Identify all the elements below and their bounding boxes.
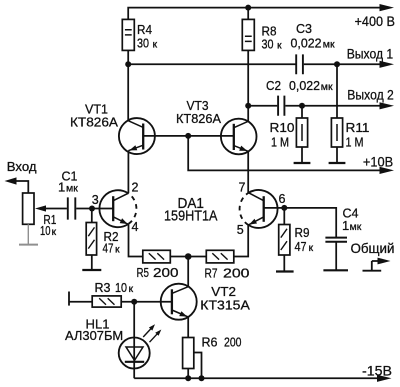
wire R11 branch from output1 [336, 64, 338, 118]
wire R11 bottom stem [336, 147, 338, 163]
transistor VT2 circle [161, 284, 197, 320]
wire R3 to VT2 base [121, 301, 172, 303]
HL1 light arrow 2 head [155, 330, 161, 336]
R4 power marks [125, 30, 132, 35]
DA1.1 emitter arrow [120, 218, 128, 224]
resistor R2 [86, 223, 96, 256]
wire output2 right segment [285, 105, 380, 107]
node junction output2/R10 [299, 103, 305, 109]
capacitor C2 [278, 96, 284, 116]
VT2 collector diagonal [172, 287, 188, 294]
HL1 light arrow 1 [143, 328, 152, 337]
wire pin6 node to C4 [284, 208, 336, 237]
svg-text:1 М: 1 М [346, 134, 364, 149]
R3 power marks [99, 298, 114, 304]
HL1 light arrow 2 [150, 333, 159, 342]
wire R8 top stem [247, 8, 249, 20]
ground bar under R11 [329, 162, 346, 164]
VT3 collector diagonal [234, 121, 248, 127]
resistor R7 [206, 250, 234, 263]
node junction R6 tap [199, 375, 205, 381]
svg-text:5: 5 [237, 223, 244, 237]
R5 power marks [149, 253, 164, 259]
wire R9 bottom stem [283, 255, 285, 271]
svg-text:С3: С3 [296, 21, 312, 36]
wire R1 bottom grey [27, 224, 29, 244]
wire output1 right segment [304, 63, 381, 65]
terminal arrow +400V [380, 4, 395, 11]
svg-text:0,022: 0,022 [289, 78, 320, 93]
node junction R8/VT3/C2 [245, 103, 251, 109]
DA1.1 base bar [112, 196, 114, 221]
VT3 base bar [233, 124, 235, 150]
svg-text:10: 10 [115, 280, 127, 295]
wire R4 bottom stem [127, 50, 129, 64]
svg-text:R7: R7 [205, 265, 218, 280]
VT3 base lead to bases node [188, 135, 234, 137]
capacitor C1 [68, 197, 76, 219]
wire R8 bottom to VT3 collector node [247, 50, 249, 105]
VT3 collector stem [247, 106, 249, 122]
wire C4 bottom stem [335, 243, 337, 270]
svg-text:к: к [52, 226, 57, 238]
wire DA1.1 emitter to R5 [129, 224, 143, 256]
LED HL1 circle [119, 338, 150, 369]
svg-text:Выход 2: Выход 2 [347, 88, 394, 103]
terminal arrow +10V [380, 167, 395, 174]
node junction VT1/VT3 bases [185, 133, 191, 139]
potentiometer R1 [23, 193, 34, 224]
node junction C1/R2/pin3 [89, 206, 95, 212]
svg-text:к: к [115, 243, 120, 255]
VT1 emitter arrow [129, 145, 137, 150]
wire input arrow lead [16, 181, 29, 193]
svg-text:47: 47 [103, 240, 114, 255]
common terminal symbol [363, 261, 382, 271]
node junction R8 top [245, 5, 251, 11]
VT2 emitter arrow [179, 311, 187, 316]
VT1 base lead to bases node [143, 135, 188, 137]
node junction output1/R11 [334, 61, 340, 67]
terminal arrow -15V [377, 375, 392, 382]
DA1.1 circle dashed arc [129, 194, 137, 224]
wire R6 bottom stem [187, 369, 189, 379]
R8 power marks [245, 36, 252, 41]
terminal arrow input [5, 177, 17, 184]
node junction pin6/R9/C4 [281, 205, 287, 211]
R2 power marks [88, 227, 94, 248]
resistor R6 [183, 338, 194, 369]
wire R2 top stem [91, 209, 93, 223]
wire VT3 emitter to DA1 pin7 [247, 151, 249, 192]
svg-text:R5: R5 [137, 265, 150, 280]
terminal arrow output 1 [380, 61, 395, 68]
wire bases to +10V rail [188, 136, 380, 171]
VT1 collector stem [127, 64, 129, 120]
svg-text:-15В: -15В [362, 362, 392, 378]
VT2 base bar [171, 289, 173, 314]
svg-text:КТ826А: КТ826А [70, 115, 118, 130]
wire wiper to C1 [45, 208, 67, 210]
VT1 emitter diagonal [128, 145, 143, 151]
R3 left terminal bar [68, 292, 70, 306]
VT3 emitter arrow [239, 146, 247, 151]
wire VT2 collector to R5/R7 node [187, 257, 189, 287]
svg-text:КТ826А: КТ826А [176, 111, 221, 126]
svg-text:к: к [153, 38, 158, 50]
svg-text:R9: R9 [295, 225, 310, 240]
svg-text:+10В: +10В [363, 154, 393, 170]
svg-text:к: к [277, 40, 282, 52]
node junction R4/VT1/C3 [125, 61, 131, 67]
svg-text:1 М: 1 М [271, 134, 289, 149]
svg-text:Вход: Вход [7, 159, 37, 174]
capacitor C4 [325, 238, 347, 242]
svg-text:к: к [129, 283, 134, 295]
svg-text:6: 6 [279, 192, 286, 206]
wire R9 top stem [283, 208, 285, 225]
DA1.2 collector diagonal [248, 193, 264, 201]
VT3 emitter diagonal [234, 146, 248, 152]
wire VT1 emitter to DA1 pin2 [127, 151, 129, 194]
DA1.2 circle dashed arc [240, 193, 249, 225]
svg-text:Выход 1: Выход 1 [347, 47, 394, 62]
wire HL1 anode and through to rail [133, 302, 135, 379]
HL1 light arrow 1 head [149, 324, 155, 330]
common terminal arrow [378, 258, 391, 265]
terminal arrow output 2 [380, 102, 395, 109]
svg-text:0,022: 0,022 [291, 36, 322, 51]
wire DA1.2 base lead [264, 207, 285, 209]
HL1 cathode bar [125, 361, 144, 363]
DA1.2 emitter diagonal [248, 217, 264, 225]
svg-text:мк: мк [321, 81, 333, 93]
svg-text:мк: мк [350, 221, 362, 233]
node junction R6 bottom [185, 375, 191, 381]
wire DA1.1 base lead [92, 208, 113, 210]
svg-text:R10: R10 [270, 120, 295, 135]
node junction R5/R7/VT2 [185, 253, 192, 260]
wire R10 bottom stem [301, 147, 303, 163]
R6 tap stub [194, 353, 202, 379]
resistor R10 [296, 118, 307, 147]
resistor R11 [331, 118, 342, 147]
svg-text:2: 2 [132, 180, 139, 194]
svg-text:+400 В: +400 В [355, 13, 396, 29]
svg-text:200: 200 [153, 265, 179, 280]
wire C1 to pin3 node [76, 208, 92, 210]
resistor R5 [143, 250, 171, 263]
DA1.1 emitter diagonal [113, 217, 128, 225]
ground bar under R9 [276, 270, 294, 272]
ground bar under C4 [323, 269, 348, 271]
svg-text:КТ315А: КТ315А [200, 298, 250, 313]
capacitor C3 [296, 54, 303, 74]
svg-text:мк: мк [323, 39, 335, 51]
wire output2 left segment [248, 105, 277, 107]
DA1.2 emitter arrow [249, 219, 257, 225]
wire -15V bottom rail [134, 377, 378, 379]
wire R10 top stem [301, 106, 303, 118]
svg-text:3: 3 [92, 193, 99, 207]
VT2 emitter diagonal [172, 310, 188, 317]
resistor R3 [92, 296, 121, 307]
svg-text:к: к [309, 242, 314, 254]
resistor R4 [122, 19, 134, 50]
wire output1 left segment [128, 63, 295, 65]
wire DA1.2 emitter to R7 [234, 225, 248, 256]
node junction R3/HL1/VT2 base [131, 299, 137, 305]
DA1.2 base bar [263, 196, 265, 222]
svg-text:47: 47 [295, 239, 307, 254]
svg-text:4: 4 [132, 220, 139, 234]
R1 wiper arrow [35, 205, 46, 211]
VT1 collector diagonal [128, 121, 143, 128]
wire terminal to R3 [69, 301, 92, 303]
svg-text:10: 10 [40, 223, 51, 238]
R11 power mark [336, 124, 338, 141]
DA1.1 circle solid arc [99, 190, 128, 227]
svg-text:АЛ307БМ: АЛ307БМ [65, 328, 123, 343]
svg-text:200: 200 [223, 265, 250, 280]
svg-text:R6: R6 [202, 334, 218, 349]
svg-text:30: 30 [137, 35, 149, 50]
resistor R9 [279, 225, 290, 256]
svg-text:7: 7 [239, 181, 246, 195]
wire +400V top rail with R4 stem [128, 8, 380, 20]
svg-text:R11: R11 [346, 120, 370, 135]
transistor VT3 circle [221, 119, 257, 155]
ground bar under R2 [82, 269, 101, 271]
wire R5 to R7 link [170, 256, 206, 258]
svg-text:С2: С2 [266, 78, 281, 93]
svg-text:1: 1 [58, 179, 65, 194]
wire R2 bottom stem [91, 255, 93, 270]
svg-text:мк: мк [66, 182, 78, 194]
wire VT2 emitter to R6 [187, 317, 189, 338]
VT1 base bar [142, 124, 144, 150]
ground bar under R1 grey [19, 244, 38, 246]
R9 power marks [281, 229, 287, 250]
HL1 diode triangle [126, 347, 143, 360]
svg-text:200: 200 [224, 334, 242, 349]
ground bar under R10 [294, 162, 311, 164]
DA1.2 circle solid arc [248, 190, 277, 228]
svg-text:1: 1 [342, 218, 349, 233]
R10 power mark [301, 124, 303, 141]
resistor R8 [242, 19, 254, 50]
R7 power marks [212, 253, 227, 259]
svg-text:R3: R3 [95, 280, 111, 295]
svg-text:159НТ1А: 159НТ1А [164, 209, 218, 225]
svg-text:Общий: Общий [351, 241, 395, 256]
svg-text:30: 30 [262, 37, 274, 52]
transistor VT1 circle [119, 118, 155, 154]
DA1.1 collector diagonal [113, 193, 128, 201]
